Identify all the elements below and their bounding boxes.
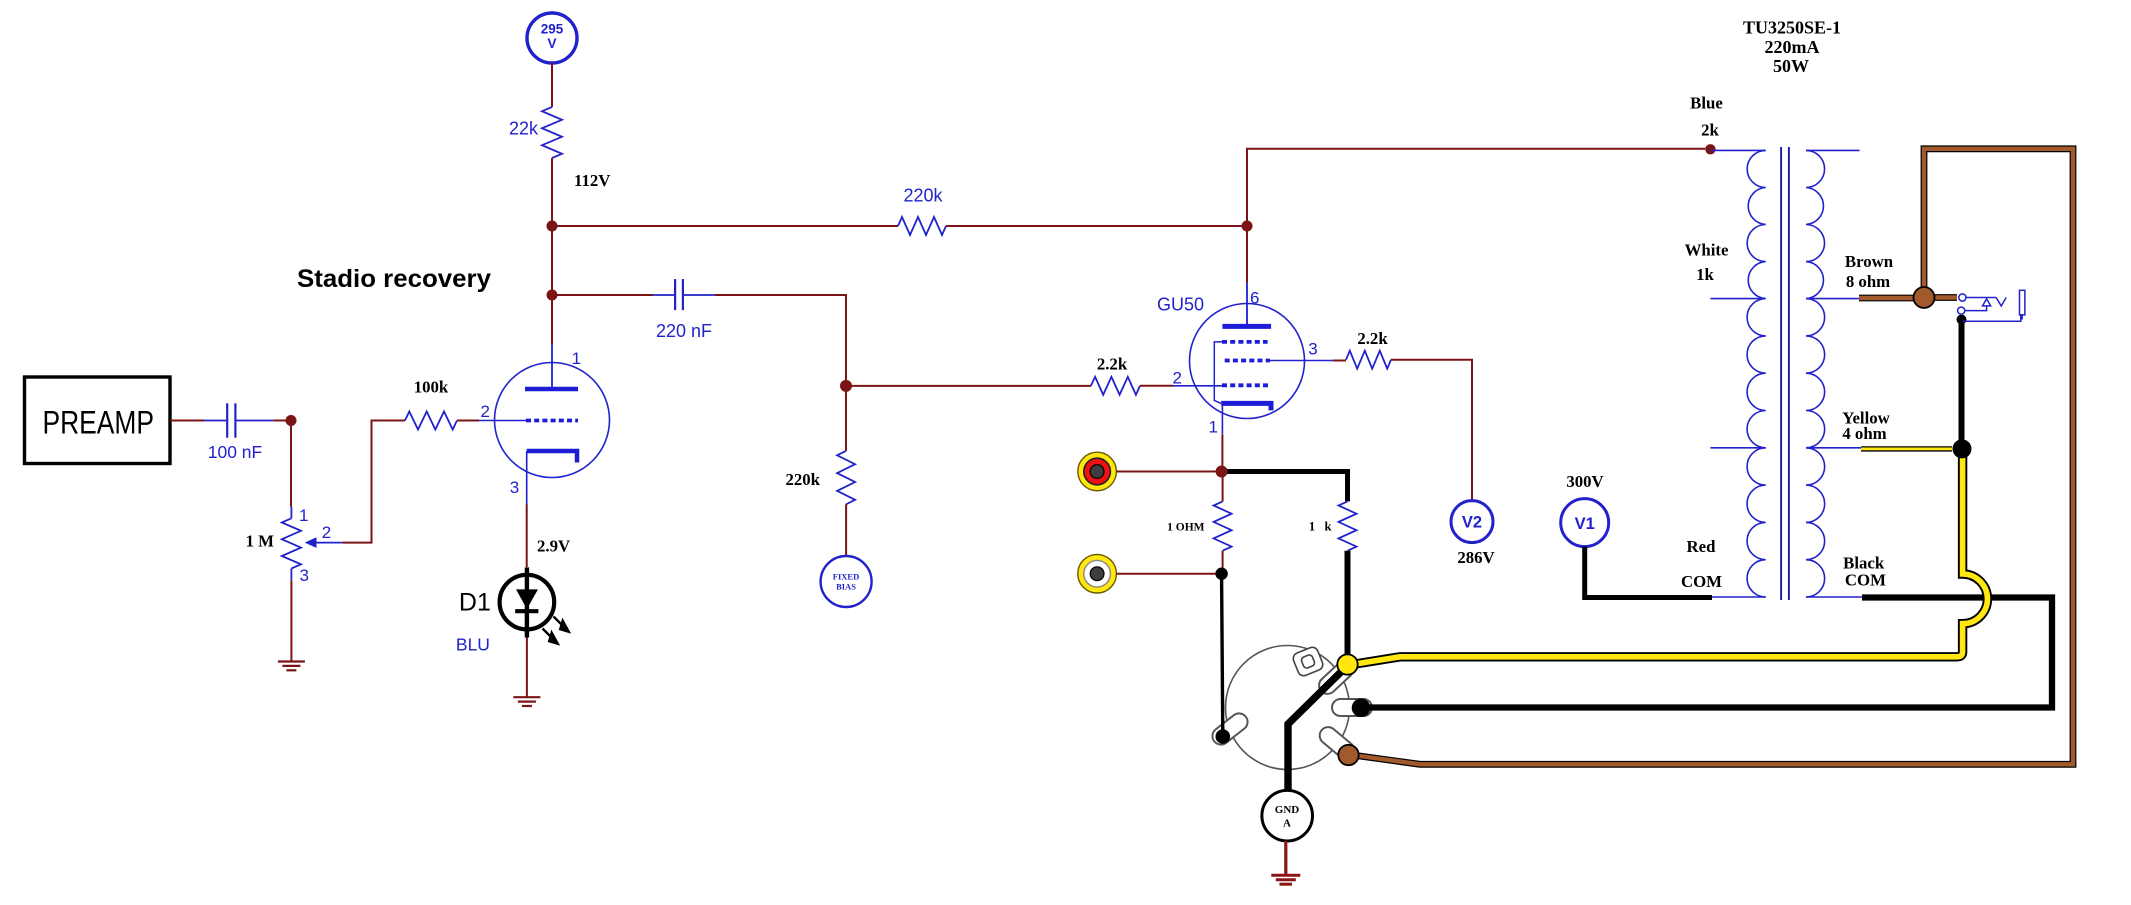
wire node A to R220k (552, 225, 898, 227)
GU50 plate (1222, 324, 1271, 329)
GU50 grid g1 (1222, 383, 1269, 387)
capacitor 100nF (204, 403, 273, 437)
pot pin 3 label (300, 566, 309, 585)
label 1 M (246, 532, 275, 551)
label 4 ohm (1842, 424, 1886, 443)
svg-text:286V: 286V (1457, 548, 1494, 567)
node FIXED BIAS (821, 556, 872, 607)
label GU50 (1157, 295, 1204, 315)
U1 pin3 label (510, 478, 519, 497)
label COM right (1845, 571, 1886, 590)
svg-text:GND: GND (1275, 804, 1300, 816)
svg-text:100 nF: 100 nF (208, 442, 262, 462)
svg-text:BIAS: BIAS (836, 582, 856, 592)
resistor 2.2k screen (1346, 351, 1391, 369)
socket pin black dot (1352, 699, 1371, 718)
label 1 OHM (1167, 522, 1205, 534)
ground pot (278, 662, 305, 671)
socket pin yellow dot (1337, 654, 1357, 674)
svg-text:Blue: Blue (1690, 94, 1723, 113)
wire node E to R220k bias (845, 386, 847, 451)
wire R100k to tube grid (457, 420, 527, 422)
svg-text:V2: V2 (1462, 514, 1482, 532)
svg-text:8 ohm: 8 ohm (1846, 272, 1890, 291)
transformer T1 secondary winding (1806, 150, 1825, 597)
resistor 1 k (1339, 501, 1357, 550)
thick wire node F to R1k (1222, 472, 1348, 502)
svg-text:Red: Red (1687, 537, 1717, 556)
resistor 1 OHM (1214, 501, 1232, 550)
wire GND A to ground (1284, 841, 1287, 875)
resistor 220k feedback (898, 217, 946, 235)
socket pad left pin (1209, 710, 1251, 748)
label D1 (459, 589, 491, 617)
GU50 pin2 label (1173, 369, 1182, 388)
svg-text:2.2k: 2.2k (1097, 355, 1128, 374)
triode U1 plate (525, 387, 578, 392)
voltmeter V1 (1561, 499, 1609, 547)
node junction F (1216, 466, 1228, 478)
yellow wire run to socket (1356, 455, 1987, 664)
resistor 220k bias (837, 451, 855, 505)
jack sleeve terminal dot (1957, 315, 1967, 325)
svg-text:100k: 100k (414, 378, 449, 397)
resistor 100k (405, 412, 457, 430)
ground A (1271, 875, 1300, 884)
svg-text:112V: 112V (574, 171, 610, 190)
resistor 22k (542, 107, 562, 158)
pentode GU50 envelope (1190, 304, 1305, 419)
svg-text:3: 3 (300, 566, 309, 585)
label Blue (1690, 94, 1723, 113)
led D1 emission arrows (543, 617, 569, 644)
thick wire V1 to Red COM (1585, 547, 1712, 598)
svg-text:2: 2 (322, 523, 331, 542)
label 112V (574, 171, 610, 190)
GU50 grid g3 (1222, 340, 1268, 344)
label 22k (509, 119, 539, 139)
svg-text:1: 1 (1209, 417, 1218, 436)
capacitor 220nF (653, 279, 715, 310)
node junction B (1242, 221, 1253, 232)
svg-text:A: A (1283, 818, 1291, 830)
jack terminal wire (1924, 294, 1957, 301)
svg-text:2k: 2k (1701, 121, 1719, 140)
svg-text:White: White (1685, 241, 1729, 260)
socket pad yellow pin (1316, 658, 1357, 698)
thick wire R1k to socket (1345, 551, 1351, 664)
pot pin 2 label (322, 523, 331, 542)
label 2.2k grid (1097, 355, 1128, 374)
svg-text:COM: COM (1681, 572, 1722, 591)
wire GU50 cathode pin1 (1221, 403, 1223, 471)
wire PREAMP to C100nF (170, 420, 204, 422)
wire yellow rca to node G (1116, 573, 1221, 575)
wire node C to plate U1 (551, 295, 553, 389)
svg-text:TU3250SE-1: TU3250SE-1 (1743, 18, 1841, 38)
thin wire node G to socket pin (1222, 579, 1223, 737)
wire C100nF to node D (273, 420, 291, 422)
transformer T1 primary leads (1710, 150, 1765, 597)
wire D1 to ground (526, 638, 528, 697)
wire node E to R2.2k (846, 385, 1091, 387)
label 1 k (1309, 520, 1332, 534)
svg-text:220 nF: 220 nF (656, 321, 712, 341)
svg-text:FIXED: FIXED (833, 572, 859, 582)
triode U1 cathode (527, 451, 577, 463)
svg-text:V1: V1 (1575, 515, 1595, 533)
label 220k bias (785, 470, 820, 489)
label Red (1687, 537, 1717, 556)
wire R220k bias to fixed bias (845, 504, 847, 556)
label 8 ohm (1846, 272, 1890, 291)
triode U1 envelope (495, 363, 610, 478)
speaker jack symbol (1958, 290, 2025, 321)
GU50 grid g2 (1225, 359, 1270, 363)
svg-text:BLU: BLU (456, 634, 490, 654)
wire node F to R1ohm (1222, 472, 1224, 502)
svg-text:V: V (547, 36, 556, 51)
svg-text:GU50: GU50 (1157, 295, 1204, 315)
brown wire run (1356, 149, 2073, 765)
triode U1 grid (526, 419, 578, 423)
svg-text:295: 295 (541, 22, 564, 37)
pot pin 1 label (299, 506, 308, 525)
transformer T1 core (1781, 147, 1789, 600)
svg-text:2.9V: 2.9V (537, 537, 570, 556)
label White (1685, 241, 1729, 260)
socket pad brown pin (1316, 724, 1358, 763)
svg-text:1 OHM: 1 OHM (1167, 522, 1205, 534)
block PREAMP (25, 377, 171, 464)
label 300V (1566, 472, 1603, 491)
svg-text:300V: 300V (1566, 472, 1603, 491)
socket pin left dot (1216, 729, 1231, 744)
GU50 pin3 label (1308, 340, 1317, 359)
wire pot to ground (290, 581, 292, 661)
label 2.9V (537, 537, 570, 556)
wire node A to node C (551, 226, 553, 295)
node junction G (1215, 568, 1227, 580)
label BLU (456, 634, 490, 654)
wire red rca to node F (1116, 471, 1221, 473)
node junction D (286, 415, 297, 426)
wire 22k to node 112V (551, 158, 553, 226)
svg-text:2: 2 (481, 402, 490, 421)
label Brown (1845, 252, 1894, 271)
led D1 (500, 567, 555, 637)
label Yellow (1842, 409, 1890, 428)
svg-text:Stadio recovery: Stadio recovery (297, 265, 491, 293)
rca jack yellow (1078, 554, 1117, 593)
label 100 nF (208, 442, 262, 462)
svg-text:1: 1 (299, 506, 308, 525)
label 220 nF (656, 321, 712, 341)
label 220k feedback (903, 186, 943, 206)
transformer T1 secondary leads (1806, 150, 1863, 597)
thick wire Black COM run (1365, 598, 2052, 708)
GU50 g3-cathode link (1214, 342, 1222, 404)
GU50 cathode (1221, 403, 1271, 410)
label 286V (1457, 548, 1494, 567)
GU50 pin1 label (1209, 417, 1218, 436)
svg-text:6: 6 (1250, 289, 1259, 308)
rca jack red (1078, 452, 1117, 491)
wire R220k to node B (946, 225, 1247, 227)
wire node B to primary Blue (1247, 149, 1705, 226)
GU50 pin6 label (1250, 289, 1259, 308)
wire 295V to R 22k (551, 63, 553, 107)
wire R1ohm to node G (1222, 551, 1224, 574)
brown junction dot (1914, 287, 1935, 308)
U1 pin1 label (572, 349, 581, 368)
label 100k (414, 378, 449, 397)
wire node B to GU50 plate (1246, 226, 1248, 326)
U1 pin2 label (481, 402, 490, 421)
wire R2.2k to GU50 g1 (1140, 385, 1222, 387)
black wire jack to node H (1959, 320, 1965, 449)
node junction H (1953, 439, 1972, 458)
svg-text:220k: 220k (785, 470, 820, 489)
socket body (1226, 646, 1350, 770)
wire node C to C 220nF (552, 294, 653, 296)
svg-text:220k: 220k (903, 186, 943, 206)
svg-text:2.2k: 2.2k (1357, 329, 1388, 348)
label TU3250SE-1 (1743, 18, 1841, 38)
label 2k (1701, 121, 1719, 140)
node primary dot (1705, 144, 1715, 154)
svg-text:2: 2 (1173, 369, 1182, 388)
label Black (1843, 554, 1885, 573)
wire C220nF to grid node (715, 295, 846, 386)
node junction A (547, 221, 558, 232)
svg-text:COM: COM (1845, 571, 1886, 590)
svg-text:3: 3 (1308, 340, 1317, 359)
svg-text:22k: 22k (509, 119, 539, 139)
potentiometer RV1 1M (282, 507, 343, 581)
label 2.2k screen (1357, 329, 1388, 348)
socket pin brown dot (1338, 745, 1358, 765)
socket pad black pin (1332, 699, 1372, 716)
svg-text:Brown: Brown (1845, 252, 1894, 271)
brown wire 8ohm tap (1859, 295, 1924, 302)
wire cathode pin3 (526, 451, 528, 567)
svg-text:1 k: 1 k (1309, 520, 1332, 534)
svg-text:4 ohm: 4 ohm (1842, 424, 1886, 443)
label 220mA (1765, 37, 1820, 57)
svg-text:1 M: 1 M (246, 532, 275, 551)
svg-text:1k: 1k (1696, 265, 1714, 284)
yellow wire 4ohm tap (1861, 446, 1952, 451)
ground D1 (513, 697, 540, 706)
svg-text:3: 3 (510, 478, 519, 497)
label Stadio recovery (297, 265, 491, 293)
wire wiper to R100k (343, 421, 405, 543)
socket keyway (1291, 646, 1324, 678)
svg-text:50W: 50W (1773, 56, 1809, 76)
thick wire socket to GND A (1288, 666, 1348, 792)
label COM left (1681, 572, 1722, 591)
transformer T1 primary winding (1747, 150, 1766, 597)
svg-text:PREAMP: PREAMP (43, 405, 155, 441)
wire node D to pot (290, 421, 292, 507)
resistor 2.2k grid stopper (1091, 377, 1140, 395)
label 50W (1773, 56, 1809, 76)
node GND A (1262, 790, 1313, 841)
wire R2.2k screen to V2 (1391, 360, 1472, 501)
node junction E grid (840, 380, 852, 392)
power node 295V (527, 13, 577, 63)
svg-text:1: 1 (572, 349, 581, 368)
svg-text:D1: D1 (459, 589, 491, 617)
label 1k (1696, 265, 1714, 284)
voltmeter V2 (1451, 501, 1493, 543)
wire GU50 g2 to R2.2k screen (1270, 360, 1346, 362)
svg-text:220mA: 220mA (1765, 37, 1820, 57)
node junction C (547, 290, 558, 301)
